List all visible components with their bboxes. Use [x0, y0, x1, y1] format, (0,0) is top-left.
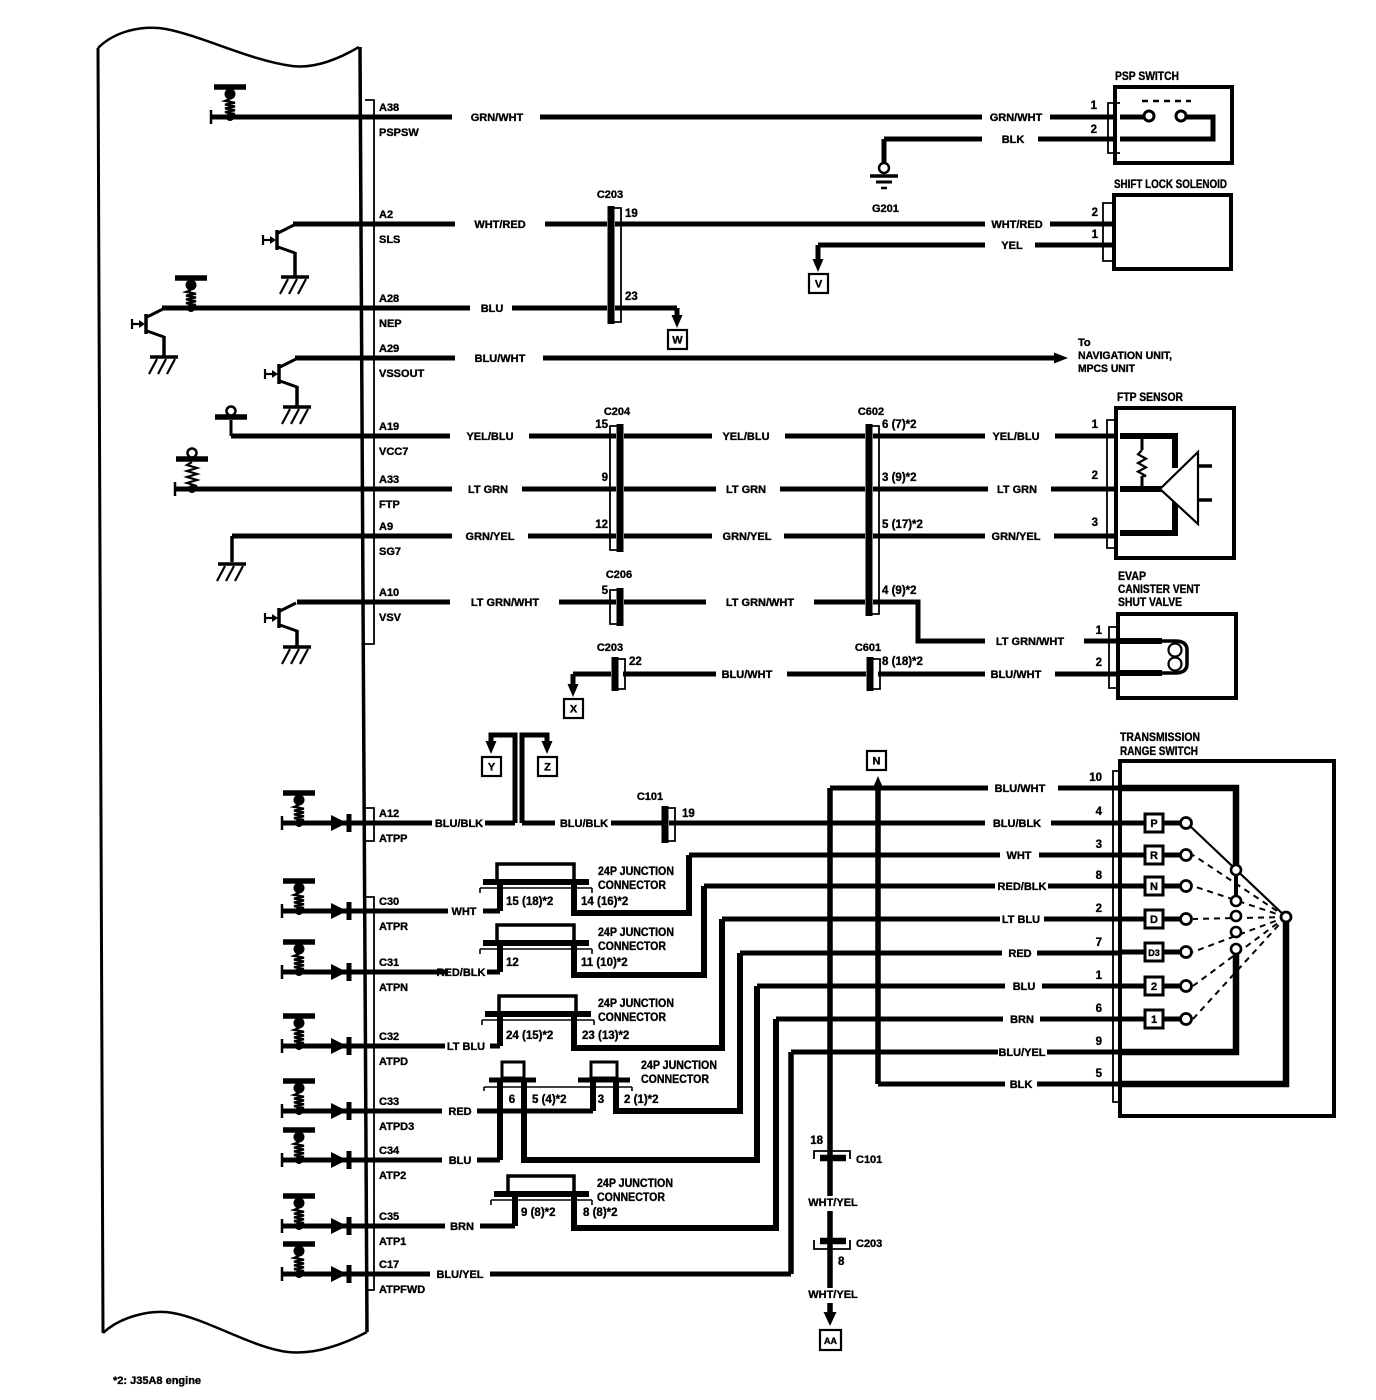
svg-text:C35: C35 [379, 1211, 399, 1223]
svg-text:5 (17)*2: 5 (17)*2 [882, 519, 923, 531]
svg-text:10: 10 [1089, 772, 1102, 784]
svg-text:NAVIGATION UNIT,: NAVIGATION UNIT, [1078, 350, 1172, 362]
svg-text:BLK: BLK [1010, 1079, 1033, 1091]
svg-text:NEP: NEP [379, 318, 402, 330]
svg-text:5 (4)*2: 5 (4)*2 [532, 1094, 567, 1106]
svg-text:FTP: FTP [379, 499, 400, 511]
svg-text:14 (16)*2: 14 (16)*2 [581, 896, 628, 908]
svg-text:X: X [570, 704, 578, 716]
svg-text:ATPN: ATPN [379, 982, 408, 994]
svg-text:ATPFWD: ATPFWD [379, 1284, 425, 1296]
svg-text:BLU/BLK: BLU/BLK [993, 818, 1041, 830]
svg-text:3 (9)*2: 3 (9)*2 [882, 472, 917, 484]
svg-text:CANISTER VENT: CANISTER VENT [1118, 584, 1200, 596]
svg-text:PSPSW: PSPSW [379, 127, 419, 139]
svg-text:WHT: WHT [451, 906, 476, 918]
svg-text:24P JUNCTION: 24P JUNCTION [598, 866, 674, 878]
svg-text:CONNECTOR: CONNECTOR [597, 1192, 666, 1204]
svg-text:24P JUNCTION: 24P JUNCTION [598, 927, 674, 939]
svg-text:8: 8 [1096, 870, 1103, 882]
svg-text:5: 5 [602, 585, 609, 597]
svg-text:A10: A10 [379, 587, 399, 599]
svg-text:GRN/YEL: GRN/YEL [992, 531, 1041, 543]
svg-text:Z: Z [544, 762, 551, 774]
svg-text:15: 15 [595, 419, 608, 431]
svg-text:8 (18)*2: 8 (18)*2 [882, 656, 923, 668]
svg-text:C101: C101 [637, 791, 663, 803]
svg-text:LT GRN: LT GRN [726, 484, 766, 496]
svg-text:2: 2 [1151, 981, 1157, 993]
svg-text:CONNECTOR: CONNECTOR [598, 941, 667, 953]
svg-text:C204: C204 [604, 406, 631, 418]
svg-text:2: 2 [1092, 207, 1098, 219]
svg-text:4: 4 [1096, 806, 1103, 818]
svg-text:ATPD: ATPD [379, 1056, 408, 1068]
svg-text:24P JUNCTION: 24P JUNCTION [641, 1060, 717, 1072]
svg-text:3: 3 [598, 1094, 604, 1106]
svg-text:C30: C30 [379, 896, 399, 908]
svg-text:YEL/BLU: YEL/BLU [466, 431, 513, 443]
svg-text:18: 18 [810, 1135, 823, 1147]
svg-text:W: W [672, 335, 683, 347]
svg-text:C31: C31 [379, 957, 399, 969]
svg-text:Y: Y [488, 762, 496, 774]
svg-text:VSV: VSV [379, 612, 402, 624]
svg-text:D: D [1150, 914, 1158, 926]
svg-text:6 (7)*2: 6 (7)*2 [882, 419, 917, 431]
svg-text:5: 5 [1096, 1068, 1103, 1080]
svg-text:4 (9)*2: 4 (9)*2 [882, 585, 917, 597]
svg-text:GRN/WHT: GRN/WHT [990, 112, 1043, 124]
svg-text:22: 22 [629, 656, 642, 668]
svg-text:A29: A29 [379, 343, 399, 355]
svg-text:*2: J35A8 engine: *2: J35A8 engine [113, 1375, 201, 1387]
svg-text:SG7: SG7 [379, 546, 401, 558]
svg-text:LT GRN/WHT: LT GRN/WHT [996, 636, 1065, 648]
svg-text:BRN: BRN [450, 1221, 474, 1233]
svg-text:RANGE SWITCH: RANGE SWITCH [1120, 746, 1198, 758]
svg-text:12: 12 [506, 957, 519, 969]
svg-text:1: 1 [1092, 419, 1099, 431]
svg-text:YEL: YEL [1001, 240, 1023, 252]
svg-text:BLU/WHT: BLU/WHT [475, 353, 526, 365]
svg-text:A38: A38 [379, 102, 399, 114]
svg-text:BLU/WHT: BLU/WHT [991, 669, 1042, 681]
svg-text:1: 1 [1096, 970, 1103, 982]
svg-text:12: 12 [595, 519, 608, 531]
svg-text:9 (8)*2: 9 (8)*2 [521, 1207, 556, 1219]
svg-text:1: 1 [1092, 229, 1099, 241]
svg-text:To: To [1078, 337, 1091, 349]
svg-text:LT BLU: LT BLU [1002, 914, 1040, 926]
svg-text:C32: C32 [379, 1031, 399, 1043]
svg-text:A19: A19 [379, 421, 399, 433]
svg-text:C33: C33 [379, 1096, 399, 1108]
svg-text:C17: C17 [379, 1259, 399, 1271]
svg-text:LT GRN: LT GRN [468, 484, 508, 496]
svg-text:AA: AA [824, 1336, 837, 1346]
svg-text:23 (13)*2: 23 (13)*2 [582, 1030, 629, 1042]
svg-text:15 (18)*2: 15 (18)*2 [506, 896, 553, 908]
svg-text:C101: C101 [856, 1154, 882, 1166]
svg-text:A9: A9 [379, 521, 393, 533]
svg-text:ATPP: ATPP [379, 833, 408, 845]
svg-text:24P JUNCTION: 24P JUNCTION [597, 1178, 673, 1190]
svg-text:VSSOUT: VSSOUT [379, 368, 425, 380]
svg-text:2 (1)*2: 2 (1)*2 [624, 1094, 659, 1106]
svg-text:SHIFT LOCK SOLENOID: SHIFT LOCK SOLENOID [1114, 179, 1227, 191]
svg-text:C601: C601 [855, 642, 881, 654]
svg-text:BRN: BRN [1010, 1014, 1034, 1026]
svg-text:WHT/RED: WHT/RED [991, 219, 1042, 231]
svg-text:6: 6 [509, 1094, 515, 1106]
svg-text:2: 2 [1096, 657, 1102, 669]
svg-text:19: 19 [625, 208, 638, 220]
svg-text:G201: G201 [872, 203, 899, 215]
svg-text:9: 9 [602, 472, 608, 484]
svg-text:P: P [1150, 818, 1157, 830]
svg-text:GRN/YEL: GRN/YEL [723, 531, 772, 543]
svg-text:GRN/WHT: GRN/WHT [471, 112, 524, 124]
svg-text:RED: RED [448, 1106, 471, 1118]
svg-text:C203: C203 [856, 1238, 882, 1250]
svg-text:BLU/WHT: BLU/WHT [722, 669, 773, 681]
svg-text:V: V [815, 279, 823, 291]
svg-text:BLU/WHT: BLU/WHT [995, 783, 1046, 795]
svg-text:BLU: BLU [1013, 981, 1036, 993]
svg-text:3: 3 [1096, 839, 1102, 851]
svg-text:C203: C203 [597, 189, 623, 201]
svg-text:2: 2 [1092, 470, 1098, 482]
svg-text:N: N [873, 756, 881, 768]
svg-text:11 (10)*2: 11 (10)*2 [581, 957, 628, 969]
svg-text:WHT/YEL: WHT/YEL [808, 1289, 858, 1301]
svg-text:A28: A28 [379, 293, 399, 305]
svg-text:C203: C203 [597, 642, 623, 654]
svg-text:EVAP: EVAP [1118, 571, 1146, 583]
svg-text:8 (8)*2: 8 (8)*2 [583, 1207, 618, 1219]
svg-text:CONNECTOR: CONNECTOR [598, 880, 667, 892]
svg-text:24P JUNCTION: 24P JUNCTION [598, 998, 674, 1010]
svg-text:FTP SENSOR: FTP SENSOR [1117, 392, 1184, 404]
svg-text:BLU/BLK: BLU/BLK [560, 818, 608, 830]
svg-text:CONNECTOR: CONNECTOR [641, 1074, 710, 1086]
svg-text:PSP SWITCH: PSP SWITCH [1115, 71, 1179, 83]
svg-text:RED/BLK: RED/BLK [437, 967, 486, 979]
svg-text:LT BLU: LT BLU [447, 1041, 485, 1053]
svg-text:7: 7 [1096, 937, 1102, 949]
svg-text:C206: C206 [606, 569, 632, 581]
svg-text:GRN/YEL: GRN/YEL [466, 531, 515, 543]
svg-text:D3: D3 [1148, 948, 1160, 958]
svg-text:WHT/YEL: WHT/YEL [808, 1197, 858, 1209]
svg-text:2: 2 [1096, 903, 1102, 915]
svg-text:LT GRN: LT GRN [997, 484, 1037, 496]
svg-text:WHT: WHT [1006, 850, 1031, 862]
svg-text:SHUT VALVE: SHUT VALVE [1118, 597, 1182, 609]
svg-text:WHT/RED: WHT/RED [474, 219, 525, 231]
svg-text:BLU/YEL: BLU/YEL [998, 1047, 1045, 1059]
svg-text:C34: C34 [379, 1145, 400, 1157]
svg-text:ATPD3: ATPD3 [379, 1121, 414, 1133]
svg-text:LT GRN/WHT: LT GRN/WHT [726, 597, 795, 609]
svg-text:C602: C602 [858, 406, 884, 418]
svg-text:ATPR: ATPR [379, 921, 408, 933]
svg-text:CONNECTOR: CONNECTOR [598, 1012, 667, 1024]
svg-text:RED/BLK: RED/BLK [998, 881, 1047, 893]
svg-text:ATP2: ATP2 [379, 1170, 406, 1182]
svg-text:MPCS UNIT: MPCS UNIT [1078, 363, 1135, 375]
svg-text:A2: A2 [379, 209, 393, 221]
svg-text:6: 6 [1096, 1003, 1102, 1015]
svg-text:RED: RED [1008, 948, 1031, 960]
svg-text:8: 8 [838, 1256, 845, 1268]
svg-text:BLU: BLU [449, 1155, 472, 1167]
svg-text:SLS: SLS [379, 234, 400, 246]
svg-text:1: 1 [1096, 625, 1103, 637]
svg-text:1: 1 [1091, 100, 1098, 112]
svg-text:LT GRN/WHT: LT GRN/WHT [471, 597, 540, 609]
svg-text:23: 23 [625, 291, 638, 303]
svg-text:19: 19 [682, 808, 695, 820]
svg-text:TRANSMISSION: TRANSMISSION [1120, 732, 1200, 744]
svg-text:R: R [1150, 850, 1158, 862]
svg-text:VCC7: VCC7 [379, 446, 408, 458]
svg-text:YEL/BLU: YEL/BLU [992, 431, 1039, 443]
svg-text:A12: A12 [379, 808, 399, 820]
svg-text:YEL/BLU: YEL/BLU [722, 431, 769, 443]
svg-text:BLU: BLU [481, 303, 504, 315]
svg-text:BLU/BLK: BLU/BLK [435, 818, 483, 830]
svg-text:BLK: BLK [1002, 134, 1025, 146]
svg-text:ATP1: ATP1 [379, 1236, 406, 1248]
svg-text:24 (15)*2: 24 (15)*2 [506, 1030, 553, 1042]
svg-text:1: 1 [1151, 1014, 1157, 1026]
svg-text:A33: A33 [379, 474, 399, 486]
svg-text:2: 2 [1091, 124, 1097, 136]
svg-text:N: N [1150, 881, 1158, 893]
svg-text:9: 9 [1096, 1036, 1102, 1048]
svg-text:3: 3 [1092, 517, 1098, 529]
svg-text:BLU/YEL: BLU/YEL [436, 1269, 483, 1281]
